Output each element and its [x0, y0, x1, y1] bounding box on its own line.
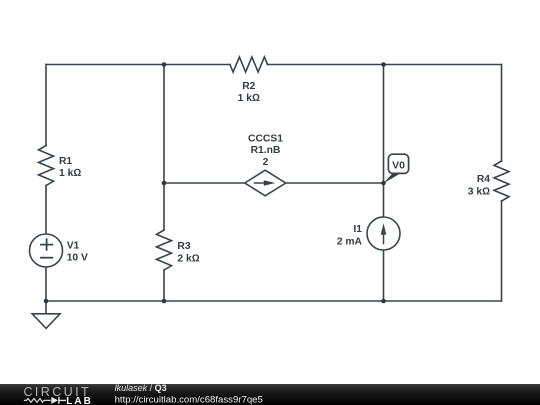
svg-text:R1.nB: R1.nB	[251, 145, 281, 156]
CCCS1 arrow head	[264, 180, 276, 186]
CCCS1 diamond	[245, 170, 286, 196]
svg-text:1 kΩ: 1 kΩ	[59, 168, 81, 179]
svg-text:V1: V1	[67, 241, 80, 252]
wire I1 branch bottom	[383, 250, 385, 301]
wire I1 branch top	[383, 65, 385, 218]
wire middle horizontal right	[286, 182, 384, 184]
svg-text:R4: R4	[477, 174, 490, 185]
node junction bottom-right-mid	[381, 299, 386, 304]
wire R3 bottom	[163, 270, 165, 301]
node V0 junction	[381, 181, 386, 186]
flag V0 box	[388, 154, 408, 173]
resistor R2	[230, 57, 268, 72]
wire middle horizontal left	[164, 182, 245, 184]
wire left vertical top	[45, 65, 47, 146]
svg-text:R2: R2	[242, 81, 255, 92]
resistor R4	[494, 161, 509, 201]
wire middle branch vertical	[163, 65, 165, 231]
wire left vertical bottom	[45, 267, 47, 301]
svg-text:R1: R1	[59, 156, 72, 167]
current source I1	[367, 217, 400, 250]
svg-text:2 kΩ: 2 kΩ	[177, 254, 199, 265]
svg-text:LAB: LAB	[66, 396, 93, 405]
node junction bottom-mid	[162, 299, 167, 304]
svg-text:I1: I1	[353, 224, 362, 235]
wire left vertical mid	[45, 186, 47, 235]
svg-text:V0: V0	[392, 160, 405, 172]
svg-text:2 mA: 2 mA	[337, 236, 363, 247]
svg-text:3 kΩ: 3 kΩ	[468, 187, 490, 198]
flag V0 pointer	[384, 173, 401, 183]
ground	[45, 301, 47, 314]
wire right vertical bottom	[501, 201, 503, 301]
wire top horizontal	[46, 64, 502, 66]
wire right vertical top	[501, 65, 503, 162]
node junction mid-left	[162, 181, 167, 186]
footer bar	[0, 384, 540, 405]
node junction top-right-mid	[381, 62, 386, 67]
wire bottom horizontal	[46, 300, 502, 302]
logo diode	[51, 397, 58, 404]
svg-text:lkulasek / Q3: lkulasek / Q3	[115, 383, 167, 393]
svg-text:http://circuitlab.com/c68fass9: http://circuitlab.com/c68fass9r7qe5	[115, 394, 263, 405]
resistor R1	[39, 146, 54, 186]
svg-text:CCCS1: CCCS1	[248, 133, 283, 144]
voltage source V1	[30, 234, 63, 267]
resistor R3	[157, 230, 172, 270]
node junction bottom-left	[44, 299, 49, 304]
svg-text:10 V: 10 V	[67, 253, 88, 264]
svg-text:1 kΩ: 1 kΩ	[238, 93, 260, 104]
svg-text:2: 2	[263, 157, 269, 168]
node junction top-mid	[162, 62, 167, 67]
svg-text:R3: R3	[177, 241, 190, 252]
I1 arrow head	[381, 223, 387, 235]
logo resistor zigzag	[24, 399, 51, 403]
